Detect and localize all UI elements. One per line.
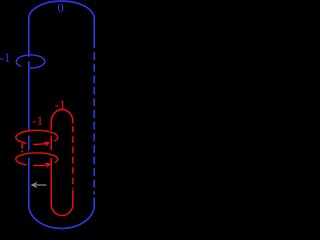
arrowhead: orientation of red ellipse 1 (44, 142, 48, 146)
red meridian ellipse 2: main arc (16, 153, 58, 165)
wire: blue left strand segment above red ellipse 1 (28, 61, 30, 130)
svg-text:0: 0 (57, 0, 64, 15)
wire: blue right strand dashed (back of unknot) (93, 52, 95, 195)
svg-text:-1: -1 (55, 97, 66, 112)
red dashed connector between ellipse left ends (21, 143, 23, 152)
red meridian ellipse 1: main arc (16, 130, 58, 143)
wire: blue left strand top + top cap + right upper (29, 1, 94, 57)
wire: red left strand lower + bottom cap + right lower (51, 158, 73, 215)
arrowhead: orientation of red ellipse 2 (46, 163, 50, 167)
wire: red right strand dashed (72, 126, 74, 189)
red -1 framed hairpin: top cap (51, 110, 73, 131)
svg-text:-1: -1 (32, 113, 43, 128)
svg-text:-1: -1 (0, 50, 10, 65)
wire: red left strand mid segment (50, 136, 52, 150)
red meridian ellipse 1: bottom arc segment with orientation (33, 143, 49, 144)
gray slide arrow pointing left at blue strand (32, 183, 47, 188)
blue meridian ellipse (-1 framed) around left strand (16, 55, 44, 68)
red meridian ellipse 2: bottom arc segment with orientation (33, 164, 50, 165)
blue 0-framed unknot: solid outline (left side, top cap, bottom cap) (29, 158, 94, 229)
wire: blue left strand segment between red ellipse gaps (28, 136, 30, 151)
